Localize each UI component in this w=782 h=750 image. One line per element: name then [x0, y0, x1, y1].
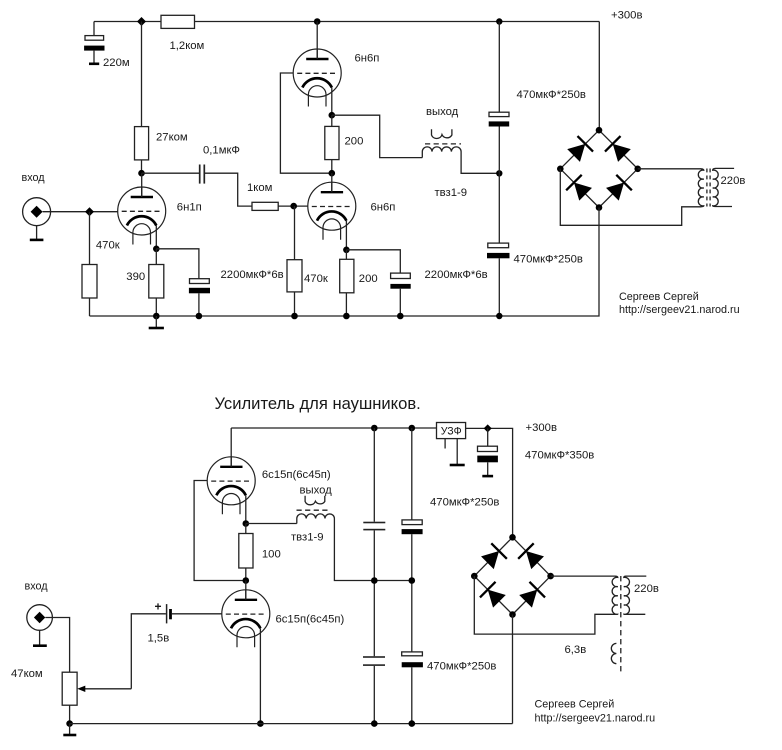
node rail1 top: [371, 425, 378, 432]
node cap 350v junction: [484, 424, 492, 432]
svg-text:470к: 470к: [96, 240, 120, 252]
wire: +300v top rail: [94, 21, 599, 23]
svg-text:470к: 470к: [304, 273, 328, 285]
power transformer 2 secondary 220v: [624, 576, 647, 614]
wire: anode node to coupling cap: [142, 172, 200, 174]
wire: rail mid segment: [498, 127, 500, 244]
wire: UZF to bridge corner: [466, 428, 513, 537]
node bridge top: [596, 127, 603, 134]
wire: bridge2 left loop to transformer: [474, 576, 615, 634]
svg-text:Сергеев Сергей: Сергеев Сергей: [619, 291, 699, 303]
diode D8 bottom-right: [518, 582, 545, 609]
wire: grid node down to 470k: [294, 206, 296, 260]
node bridge bottom: [596, 204, 603, 211]
capacitor 0,1mkf coupling: [200, 165, 205, 184]
capacitor 220m electrolytic: [84, 22, 104, 64]
wire: 390 to ground rail: [155, 298, 157, 316]
svg-text:220в: 220в: [721, 175, 746, 187]
node anode V5: [243, 577, 250, 584]
diode D3 bottom-left: [566, 175, 593, 202]
vacuum tube V2 6n6p upper: [293, 49, 341, 107]
node cathode V2: [329, 112, 336, 119]
svg-text:1ком: 1ком: [247, 182, 272, 194]
resistor R 1kom: [252, 202, 278, 210]
wire: input node down to 470k: [89, 212, 91, 265]
ground symbol main: [149, 316, 164, 328]
wire: cathode node to 390: [155, 249, 157, 265]
wire: V3 cathode lead: [345, 221, 347, 250]
diode D7 bottom-left: [480, 582, 507, 609]
wire: 1kom to grid V3: [278, 205, 308, 207]
wire: cathode V4 lead: [245, 495, 247, 523]
vacuum tube V3 6n6p lower: [308, 182, 356, 240]
wire: 470k to ground rail: [89, 298, 91, 316]
diode bridge bottom: edges: [474, 537, 550, 614]
node rail2 bottom: [409, 720, 416, 727]
svg-text:0,1мкФ: 0,1мкФ: [203, 145, 240, 157]
wire: cap to 1kom: [205, 173, 252, 206]
diode bridge top: edges: [560, 130, 637, 207]
inductor winding TVZ1-9: [422, 147, 499, 173]
capacitor 470mkf*250v upper: [489, 112, 510, 126]
wire: cathode V1 lead: [155, 226, 157, 249]
wire: top +300v rail: [231, 427, 436, 429]
wire: grid V4 feedback loop: [194, 481, 246, 581]
svg-text:6с15п(6с45п): 6с15п(6с45п): [262, 469, 331, 481]
wire: battery left to wiper: [131, 614, 166, 689]
svg-text:+300в: +300в: [611, 10, 642, 22]
node cathode V1: [153, 246, 160, 253]
capacitor 470mkf*250v rail2 upper: [402, 520, 423, 534]
wire: node down to V5: [245, 581, 247, 600]
wire: anode lead V2: [316, 22, 318, 60]
wire: bridge left vertex loop to transformer: [560, 169, 701, 226]
wire: anode V4 to rail: [230, 428, 232, 467]
svg-text:+300в: +300в: [526, 422, 557, 434]
svg-text:47ком: 47ком: [11, 668, 43, 680]
wire: pot bottom to ground rail: [69, 705, 71, 723]
input jack connector 2: [27, 605, 53, 631]
node input junction: [85, 207, 94, 216]
capacitor 2200mkf*6v bypass V3: [390, 273, 410, 316]
node gnd 200: [343, 313, 350, 320]
svg-text:470мкФ*250в: 470мкФ*250в: [427, 661, 496, 673]
transformer 2 core dash: [620, 576, 622, 673]
power transformer secondary 220v winding: [713, 168, 734, 206]
svg-text:2200мкФ*6в: 2200мкФ*6в: [425, 269, 488, 281]
wire: ground rail bottom: [90, 208, 600, 317]
node gnd 470k2: [291, 313, 298, 320]
resistor R 390 cathode: [149, 265, 164, 299]
vacuum tube V1 6n1p: [118, 187, 166, 245]
svg-text:Сергеев Сергей: Сергеев Сергей: [535, 699, 615, 711]
node cathode V5 ground: [257, 720, 264, 727]
transformer core dashes TVZ1-9: [425, 143, 461, 145]
svg-text:6н6п: 6н6п: [371, 202, 396, 214]
node bridge left: [557, 166, 564, 173]
svg-text:1,2ком: 1,2ком: [170, 40, 205, 52]
node rail1 bottom: [371, 720, 378, 727]
svg-text:470мкФ*350в: 470мкФ*350в: [525, 450, 594, 462]
wire: cathode V3 to bypass cap 2: [346, 250, 400, 273]
wire: 470k to ground rail: [294, 292, 296, 316]
node bridge2 bottom: [509, 611, 516, 618]
svg-text:200: 200: [359, 273, 378, 285]
diode D4 bottom-right: [605, 175, 632, 202]
svg-text:200: 200: [345, 136, 364, 148]
transformer core dashes TVZ1-9 lower: [297, 509, 329, 511]
ground below UZF: [450, 439, 465, 465]
capacitor 470mkf*250v lower: [487, 243, 510, 258]
resistor R 470k grid V3: [287, 260, 302, 292]
wire: bridge2 right to transformer: [551, 575, 616, 577]
resistor R 200 upper: [325, 126, 339, 159]
node grid V3: [290, 203, 297, 210]
node pot ground: [66, 720, 73, 727]
wire: anode lead V3: [331, 173, 333, 192]
node anode V3: [329, 170, 336, 177]
vacuum tube V4 6s15p upper: [207, 457, 255, 515]
svg-text:6н1п: 6н1п: [177, 202, 202, 214]
wire: node to 200: [331, 115, 333, 126]
svg-text:6с15п(6с45п): 6с15п(6с45п): [276, 614, 345, 626]
svg-text:http://sergeev21.narod.ru: http://sergeev21.narod.ru: [619, 304, 740, 316]
potentiometer 47kom body: [62, 672, 77, 705]
headphones symbol 2: [305, 496, 325, 505]
svg-text:6н6п: 6н6п: [355, 53, 380, 65]
svg-text:470мкФ*250в: 470мкФ*250в: [517, 89, 586, 101]
svg-text:220в: 220в: [634, 583, 659, 595]
transformer core dashes: [707, 169, 710, 207]
svg-text:2200мкФ*6в: 2200мкФ*6в: [221, 269, 284, 281]
resistor R 27kom: [135, 127, 149, 160]
power transformer 2 primary winding: [612, 576, 618, 614]
node rail1 mid: [371, 577, 378, 584]
resistor R 1,2kom: [161, 15, 195, 28]
wire: V2 cathode lead: [331, 88, 333, 116]
wire: rail down to 27kom: [141, 22, 143, 127]
node anode V1: [138, 170, 145, 177]
heater winding 6,3v: [611, 643, 616, 663]
capacitor rail1 upper: [363, 522, 385, 531]
node cathode V4: [243, 520, 250, 527]
svg-text:470мкФ*250в: 470мкФ*250в: [430, 497, 499, 509]
node gnd rail caps: [496, 313, 502, 319]
wire: 200 to V3 anode node: [331, 160, 333, 174]
node gnd bypass1: [196, 313, 203, 320]
node rail2 mid: [409, 577, 416, 584]
diode D5 top-left: [480, 543, 507, 570]
vacuum tube V5 6s15p lower: [222, 590, 270, 648]
resistor R 470k grid leak: [82, 265, 97, 299]
node A junction top rail: [137, 17, 146, 26]
wire: 200 to ground rail: [345, 293, 347, 316]
block UZF filter: [437, 423, 466, 439]
wire: 100 to anode node V5: [245, 568, 247, 581]
node bridge right: [634, 166, 641, 173]
diode D6 top-right: [518, 543, 545, 570]
input jack connector: [23, 198, 51, 226]
resistor R 100: [239, 534, 253, 569]
diode D1 top-left: [566, 136, 593, 163]
wire: HV rail upper segment: [498, 22, 500, 113]
svg-text:выход: выход: [300, 485, 333, 497]
svg-text:220м: 220м: [103, 57, 130, 69]
node junction top rail rail cap: [496, 18, 502, 24]
ground below input jack: [30, 226, 44, 240]
wire: cathode V5 to ground rail: [259, 628, 261, 723]
svg-text:УЗФ: УЗФ: [441, 425, 462, 437]
svg-text:1,5в: 1,5в: [148, 633, 170, 645]
capacitor 470mkf*350v: [477, 428, 498, 476]
svg-text:+: +: [155, 600, 162, 614]
wire: cathode node to 100: [245, 524, 247, 534]
resistor R 200 lower: [340, 259, 354, 293]
inductor winding TVZ1-9 lower: [297, 514, 412, 581]
battery 1,5v: [167, 604, 171, 623]
svg-text:470мкФ*250в: 470мкФ*250в: [514, 254, 583, 266]
wire: ground rail bottom schematic: [70, 723, 513, 725]
wire: filter rail 2: [411, 428, 413, 724]
ground below jack 2: [33, 630, 47, 645]
wire: filter rail 1: [373, 428, 375, 724]
node junction top rail tube V2: [314, 18, 321, 25]
svg-text:твз1-9: твз1-9: [291, 532, 324, 544]
svg-text:27ком: 27ком: [156, 132, 188, 144]
UZF stub lead: [444, 439, 446, 449]
svg-text:Усилитель для наушников.: Усилитель для наушников.: [215, 394, 421, 413]
svg-text:твз1-9: твз1-9: [435, 187, 468, 199]
node bridge2 top: [509, 534, 516, 541]
wire: grid V2 feedback to V3 anode: [280, 73, 332, 173]
capacitor rail1 lower: [363, 656, 385, 666]
capacitor 470mkf*250v rail2 lower: [402, 652, 423, 667]
wire: +300v corner down to bridge: [598, 22, 600, 131]
node rail2 top: [409, 425, 416, 432]
wire: bridge2 bottom to ground rail: [512, 615, 514, 724]
wire: cathode node to output transformer: [246, 523, 297, 525]
svg-text:390: 390: [126, 271, 145, 283]
svg-text:вход: вход: [22, 172, 46, 184]
headphones symbol: [432, 129, 452, 138]
potentiometer wiper arrow: [77, 686, 131, 692]
wire: node to 200 lower: [345, 250, 347, 259]
node bridge2 right: [547, 573, 554, 580]
wire: V2 cathode node to output transformer: [332, 115, 423, 157]
wire: 27kom to anode node: [141, 160, 143, 173]
diode D2 top-right: [605, 136, 632, 163]
ground symbol bottom: [63, 724, 76, 735]
node cathode V3: [343, 247, 350, 254]
node rail transformer junction: [496, 170, 502, 176]
wire: anode lead V1: [141, 173, 143, 197]
wire: battery to grid V5: [172, 613, 222, 615]
svg-text:6,3в: 6,3в: [565, 644, 587, 656]
wire: jack to potentiometer: [45, 618, 69, 673]
svg-text:вход: вход: [25, 581, 49, 593]
wire: rail lower segment: [498, 258, 500, 316]
capacitor 2200mkf*6v bypass V1: [189, 279, 210, 316]
wire: jack to grid V1: [43, 211, 118, 213]
node bridge2 left: [471, 573, 478, 580]
svg-text:выход: выход: [426, 106, 459, 118]
svg-text:http://sergeev21.narod.ru: http://sergeev21.narod.ru: [535, 713, 656, 725]
power transformer primary winding: [698, 169, 703, 207]
wire: bridge right vertex to transformer: [638, 168, 701, 170]
node gnd bypass2: [397, 313, 404, 320]
wire: cathode node to bypass cap: [156, 249, 199, 279]
node gnd 390: [153, 313, 160, 320]
svg-text:100: 100: [262, 549, 281, 561]
